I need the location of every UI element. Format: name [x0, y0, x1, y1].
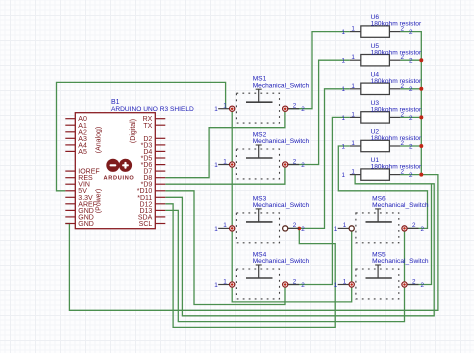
pin *D10 (right)	[155, 190, 165, 192]
pin A4 (left)	[65, 144, 75, 146]
svg-text:1: 1	[341, 29, 345, 36]
pin A2 (left)	[65, 131, 75, 133]
wire D13 along bottom up to MS6 pin 2 column	[165, 210, 404, 321]
svg-text:180kohm resistor: 180kohm resistor	[371, 49, 422, 56]
pin D2 (right)	[155, 137, 165, 139]
svg-text:180kohm resistor: 180kohm resistor	[371, 78, 422, 85]
svg-text:2: 2	[409, 86, 413, 93]
svg-text:1: 1	[343, 278, 347, 285]
wire D10 down and over to MS4 pin 2	[165, 191, 285, 305]
resistor U4	[341, 83, 413, 95]
wire D11 along bottom, up right side, under U1 to U1 pin 1	[165, 175, 434, 316]
wire D9 to MS2 pin 2	[165, 165, 285, 185]
resistor U2	[341, 140, 413, 152]
svg-text:Mechanical_Switch: Mechanical_Switch	[253, 138, 310, 145]
svg-text:SCL: SCL	[139, 221, 153, 228]
arduino B1 body	[75, 113, 155, 229]
wire GND resistor bus vertical	[400, 32, 421, 175]
svg-text:1: 1	[351, 54, 355, 61]
svg-text:1: 1	[351, 26, 355, 33]
svg-text:1: 1	[223, 158, 227, 165]
svg-text:Mechanical_Switch: Mechanical_Switch	[253, 202, 310, 209]
pin 3.3V (left)	[65, 196, 75, 198]
svg-text:2: 2	[301, 226, 305, 233]
pin D7 (right)	[155, 170, 165, 172]
pin *D5 (right)	[155, 157, 165, 159]
svg-text:B1: B1	[111, 99, 120, 106]
wire U3 pin 2 to GND bus	[400, 116, 421, 118]
svg-text:Mechanical_Switch: Mechanical_Switch	[372, 202, 429, 209]
svg-text:(Power): (Power)	[96, 189, 103, 214]
mechanical switch MS6	[334, 209, 425, 243]
svg-text:1: 1	[351, 111, 355, 118]
svg-text:2: 2	[412, 278, 416, 285]
svg-text:2: 2	[409, 115, 413, 122]
wire U1 pin 2 to GND bus	[400, 174, 421, 176]
pin GND (left)	[65, 209, 75, 211]
mechanical switch MS1	[214, 89, 305, 123]
mechanical switch MS2	[214, 145, 305, 179]
pin A1 (left)	[65, 124, 75, 126]
svg-text:1: 1	[351, 169, 355, 176]
svg-text:2: 2	[421, 282, 425, 289]
wire MS2 pin 2 up to U5 pin 1	[285, 60, 350, 164]
wire 5V bus: MS1-MS4 pin1 column, bottom jog, MS5/MS6 pin1 column	[232, 109, 352, 302]
wire D8 to MS1 pin 2 (under switch box)	[165, 109, 285, 178]
pin 5V (left)	[65, 190, 75, 192]
pin *D6 (right)	[155, 164, 165, 166]
pin D13 (right)	[155, 209, 165, 211]
wire MS5 pin 2 up to U1 net	[405, 184, 432, 285]
wire MS4 pin 2 up to U3 pin 1	[285, 117, 350, 284]
svg-text:2: 2	[301, 162, 305, 169]
svg-text:1: 1	[223, 278, 227, 285]
svg-text:(Digital): (Digital)	[130, 119, 137, 143]
mechanical switch MS5	[334, 265, 425, 299]
pin RES (left)	[65, 177, 75, 179]
wire MS3 pin 2 up to U4 pin 1	[285, 89, 350, 229]
svg-text:2: 2	[301, 106, 305, 113]
wire GND from Arduino GND along bottom and up right side	[65, 175, 438, 311]
pin AREF (left)	[65, 203, 75, 205]
pin IOREF (left)	[65, 170, 75, 172]
svg-text:1: 1	[341, 58, 345, 65]
pin GND (left)	[65, 216, 75, 218]
pin VIN (left)	[65, 183, 75, 185]
mechanical switch MS3	[214, 209, 305, 243]
svg-text:GND: GND	[78, 221, 94, 228]
svg-text:2: 2	[409, 172, 413, 179]
pin A0 (left)	[65, 118, 75, 120]
svg-text:1: 1	[214, 226, 218, 233]
svg-text:1: 1	[223, 103, 227, 110]
svg-text:1: 1	[341, 172, 345, 179]
svg-text:1: 1	[214, 106, 218, 113]
svg-text:180kohm resistor: 180kohm resistor	[371, 107, 422, 114]
resistor U3	[341, 111, 413, 123]
pin *D9 (right)	[155, 183, 165, 185]
svg-text:ARDUINO UNO R3 SHIELD: ARDUINO UNO R3 SHIELD	[111, 106, 194, 113]
wire D12 down along bottom and up to MS3 pin 2 stub	[165, 204, 335, 328]
resistor U5	[341, 54, 413, 66]
svg-text:2: 2	[409, 143, 413, 150]
pin D4 (right)	[155, 150, 165, 152]
svg-text:180kohm resistor: 180kohm resistor	[371, 164, 422, 171]
svg-text:Mechanical_Switch: Mechanical_Switch	[253, 82, 310, 89]
junction at U3 pin 2 / GND bus	[419, 115, 423, 119]
pin *D11 (right)	[155, 196, 165, 198]
svg-text:2: 2	[301, 282, 305, 289]
resistor U6	[341, 26, 413, 38]
pin A5 (left)	[65, 150, 75, 152]
wire MS6 pin 2 up and over to U2 pin 1	[338, 146, 427, 228]
svg-text:ARDUINO: ARDUINO	[103, 175, 134, 181]
pin SCL (right)	[155, 223, 165, 225]
pin D8 (right)	[155, 177, 165, 179]
pin D12 (right)	[155, 203, 165, 205]
svg-text:1: 1	[334, 282, 338, 289]
junction at MS3 pin 2 stub end	[298, 227, 302, 231]
svg-text:2: 2	[293, 222, 297, 229]
svg-text:1: 1	[223, 222, 227, 229]
svg-text:1: 1	[334, 226, 338, 233]
pin RX (right)	[155, 118, 165, 120]
wire U4 pin 2 to GND bus	[400, 88, 421, 90]
svg-text:180kohm resistor: 180kohm resistor	[371, 21, 422, 28]
svg-text:(Analog): (Analog)	[96, 127, 103, 153]
mechanical switch MS4	[214, 265, 305, 299]
pin TX (right)	[155, 124, 165, 126]
pin SDA (right)	[155, 216, 165, 218]
svg-text:1: 1	[343, 222, 347, 229]
svg-text:1: 1	[351, 140, 355, 147]
svg-text:Mechanical_Switch: Mechanical_Switch	[372, 258, 429, 265]
wire MS1 pin 2 up to U6 pin 1	[285, 32, 350, 109]
svg-text:2: 2	[293, 158, 297, 165]
junction at U5 pin 2 / GND bus	[419, 58, 423, 62]
pin *D3 (right)	[155, 144, 165, 146]
svg-text:1: 1	[351, 83, 355, 90]
svg-text:1: 1	[214, 282, 218, 289]
svg-text:TX: TX	[143, 123, 152, 130]
svg-text:Mechanical_Switch: Mechanical_Switch	[253, 258, 310, 265]
svg-text:2: 2	[409, 58, 413, 65]
svg-text:2: 2	[293, 278, 297, 285]
pin GND (left)	[65, 223, 75, 225]
junction at U2 pin 2 / GND bus	[419, 144, 423, 148]
svg-text:1: 1	[341, 143, 345, 150]
wire U5 pin 2 to GND bus	[400, 59, 421, 61]
svg-text:1: 1	[341, 115, 345, 122]
wire 5V from pin 5V up and over to MS1 pin 1	[57, 82, 226, 190]
resistor U1	[341, 169, 413, 181]
svg-text:2: 2	[421, 226, 425, 233]
pin A3 (left)	[65, 137, 75, 139]
junction at U4 pin 2 / GND bus	[419, 87, 423, 91]
svg-text:2: 2	[412, 222, 416, 229]
junction at U1 pin 2 / GND bus	[419, 173, 423, 177]
svg-text:2: 2	[293, 103, 297, 110]
arduino infinity logo	[106, 159, 132, 172]
svg-text:1: 1	[214, 162, 218, 169]
svg-text:A5: A5	[78, 149, 87, 156]
wire U2 pin 2 to GND bus	[400, 145, 421, 147]
svg-text:1: 1	[341, 86, 345, 93]
svg-text:180kohm resistor: 180kohm resistor	[371, 135, 422, 142]
svg-text:2: 2	[409, 29, 413, 36]
